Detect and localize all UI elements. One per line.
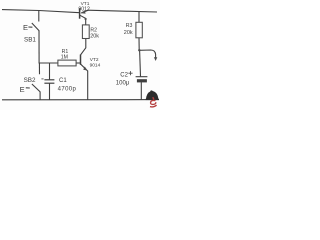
C2 polarity plus — [128, 71, 132, 75]
svg-text:100μ: 100μ — [116, 81, 130, 87]
transistor VT2 base bar — [80, 55, 82, 65]
wire: VT2 emitter to ground rail — [87, 71, 89, 100]
svg-text:E: E — [23, 23, 28, 32]
transistor VT1 base bar — [79, 8, 81, 19]
svg-text:R3: R3 — [126, 23, 133, 29]
resistor R1 body — [58, 60, 76, 66]
svg-text:9012: 9012 — [78, 6, 90, 12]
svg-text:4700p: 4700p — [58, 86, 77, 92]
wire: rail from VT1 emitter to right edge — [88, 10, 158, 12]
svg-text:20k: 20k — [124, 30, 133, 36]
svg-text:C2: C2 — [120, 73, 128, 79]
battery label E dash (lower) — [26, 87, 30, 89]
svg-text:1M: 1M — [61, 54, 68, 60]
output node junction dot — [138, 49, 140, 51]
resistor R2 body — [82, 25, 89, 39]
wire: SB2 upper contact from node A — [38, 63, 40, 74]
pushbutton SB2 blade — [32, 84, 40, 92]
wire: rail tap down to R3 — [138, 12, 140, 23]
svg-text:SB2: SB2 — [24, 77, 36, 84]
wire: top line from left edge to VT1 base — [2, 10, 80, 13]
VT1 collector elbow dot — [85, 18, 87, 20]
svg-text:C1: C1 — [59, 78, 67, 84]
capacitor C1 bottom plate — [44, 82, 54, 84]
wire: SB2 lower contact to ground rail — [39, 92, 41, 100]
svg-text:VT2: VT2 — [90, 57, 99, 63]
capacitor C1 small tick — [41, 78, 43, 80]
output lead curve with arrow — [139, 50, 155, 58]
capacitor C2 top plate — [136, 76, 148, 78]
transistor VT1 emitter lead — [81, 10, 88, 13]
wire: C1 bottom to ground rail — [49, 83, 51, 100]
pushbutton SB1 blade — [32, 23, 40, 31]
transistor VT1 emitter arrowhead — [81, 10, 86, 13]
wire: R3 bottom to output node — [138, 38, 140, 51]
svg-text:20k: 20k — [90, 33, 99, 39]
capacitor C2 bottom plate (filled) — [137, 79, 147, 82]
wire: VT1 collector elbow down to R2 top — [80, 15, 86, 25]
wire: C2 bottom to ground rail — [140, 82, 142, 100]
svg-text:E: E — [20, 85, 25, 94]
wire: SB1 lower contact down to node A — [38, 31, 40, 63]
wire: node A to R1 left — [39, 62, 58, 64]
wire: ground rail (bottom) — [2, 99, 159, 101]
earphone B symbol — [146, 90, 159, 99]
wire: R1 right to VT2 base — [76, 62, 80, 64]
resistor R3 body — [136, 22, 142, 38]
transistor VT2 emitter lead — [81, 64, 88, 71]
transistor VT2 collector lead — [81, 39, 86, 55]
output arrowhead — [154, 57, 157, 61]
svg-text:9014: 9014 — [90, 62, 101, 68]
battery label E dash (upper) — [28, 26, 32, 28]
capacitor C1 top plate — [44, 79, 54, 81]
svg-text:SB1: SB1 — [24, 36, 36, 43]
wire: SB1 upper contact — [38, 10, 40, 21]
svg-text:R2: R2 — [90, 27, 97, 33]
red watermark glyph — [150, 97, 157, 107]
wire: output node down to C2 top — [139, 50, 142, 76]
wire: C1 tap from node A wire — [49, 63, 51, 79]
transistor VT2 emitter arrowhead — [83, 67, 87, 71]
